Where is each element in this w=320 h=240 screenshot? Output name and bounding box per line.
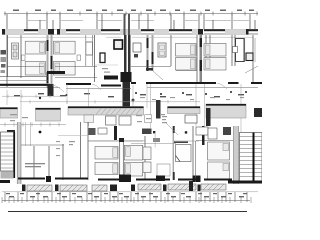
bed C1: [95, 147, 118, 160]
bottom dimension labels: [6, 193, 247, 197]
ground line: [8, 211, 247, 213]
wall band masonry blocks (gray): [5, 30, 246, 35]
door arc corridor mid: [92, 84, 101, 90]
planter left: [0, 108, 18, 119]
text near shaft: [102, 68, 110, 73]
wall band piers (black): [2, 29, 249, 35]
bottom dimension line: [2, 200, 250, 202]
party wall shaft mid-right: [147, 35, 154, 71]
bed A3: [25, 62, 45, 76]
duct block right: [146, 68, 153, 71]
lower wall corner blocks: [0, 176, 262, 184]
pier far right: [254, 108, 262, 117]
shower lower right: [176, 145, 192, 162]
bed C2: [124, 145, 142, 160]
text marks mid: [162, 116, 167, 123]
secondary dim segments top: [28, 20, 249, 22]
duct box black-framed: [114, 40, 123, 49]
corridor dim line mid: [20, 100, 200, 104]
dot marker: [39, 131, 42, 134]
nightstand right: [77, 55, 81, 61]
party wall shaft right: [200, 35, 203, 84]
fixtures far left: [1, 50, 7, 73]
room line mid lower: [131, 143, 176, 145]
bed C3: [95, 163, 118, 175]
wall band sill lines: [24, 33, 258, 35]
dresser above beds D: [208, 128, 217, 139]
party wall lower mid: [119, 138, 131, 182]
party wall shaft left: [47, 35, 53, 88]
door arc corridor right: [217, 83, 227, 89]
corridor vertical lines: [7, 84, 241, 132]
bed C4: [124, 163, 142, 177]
lower shaft piers: [114, 126, 205, 180]
sofa mid: [143, 147, 151, 160]
door swing: [153, 71, 163, 80]
duct bar left of shaft: [104, 76, 118, 80]
corridor wall main: [0, 83, 262, 86]
wardrobe left: [12, 43, 19, 59]
dark dot kitchen: [185, 131, 187, 133]
furniture top row lower zone: [89, 127, 232, 142]
planter mid-left: [36, 108, 61, 121]
bed B1: [176, 44, 197, 57]
balcony slab long: [68, 107, 144, 126]
nightstand left: [22, 55, 26, 61]
dresser lower: [157, 164, 170, 176]
wall band lintels over windows (black): [24, 29, 258, 35]
side table lower: [143, 162, 151, 173]
parapet piers: [22, 181, 201, 191]
bed B4: [204, 58, 226, 71]
shaft between bedrooms 2: [86, 35, 93, 66]
door arc corridor left: [52, 85, 64, 92]
bathroom right unit: [233, 38, 256, 62]
wall bar above corridor: [47, 71, 65, 74]
extra short ticks: [2, 197, 251, 203]
room top line lower mid: [88, 140, 145, 142]
room divider lines upper: [0, 67, 197, 78]
small fixture mid: [145, 115, 152, 123]
door swing right: [245, 66, 258, 73]
bed D1: [208, 142, 230, 160]
bed A1: [25, 41, 45, 54]
bed B2: [204, 44, 226, 57]
black chunk bottom mid: [156, 176, 165, 182]
lower exterior wall segments: [18, 179, 232, 180]
bed D2: [208, 162, 230, 180]
annotation text lower left: [25, 163, 45, 167]
central shaft: [121, 14, 132, 108]
shaft bar mid: [156, 100, 161, 119]
bed B3: [176, 58, 197, 71]
interior walls lower zone: [34, 122, 193, 180]
black chunk lower right: [193, 176, 201, 183]
stair right: [240, 133, 263, 183]
interior walls upper zone: [7, 35, 253, 87]
shaft below corridor left: [48, 84, 54, 96]
bottom parapet hatched segments: [27, 184, 226, 191]
shelf line lower left: [58, 135, 88, 137]
corridor clutter: [14, 93, 244, 97]
exterior wall band top: [2, 30, 258, 35]
balcony slab mid-right: [168, 107, 201, 114]
corridor dim line left: [2, 95, 62, 99]
riser pair crossing corridor: [150, 84, 152, 128]
lower zone horizontal lines: [21, 141, 233, 146]
small cabinet row mid: [133, 43, 141, 58]
door swing lower mid: [166, 123, 178, 135]
hatch band underline: [2, 191, 258, 193]
table upper right lower zone: [185, 115, 197, 123]
room line right lower: [174, 140, 199, 142]
wardrobe mid-right unit: [158, 43, 166, 57]
dimension line top: [4, 13, 258, 15]
dimension labels top: [13, 10, 254, 12]
dimension ticks top: [5, 12, 257, 16]
bottom dimension ticks: [5, 192, 247, 202]
corridor wall secondary lines: [0, 81, 258, 89]
wardrobe mid-left unit: [100, 53, 105, 63]
divider line lower mid: [154, 132, 156, 148]
stair wall strip left: [17, 122, 21, 184]
bed A2: [53, 41, 75, 54]
dimension row mid-left: [0, 123, 66, 127]
corridor verticals left lower: [26, 122, 31, 146]
inner wall face line: [7, 36, 253, 38]
pier mid right: [206, 108, 211, 126]
stair wall strip right: [234, 126, 239, 184]
hatch strokes: [29, 184, 224, 191]
wall risers above band: [7, 14, 255, 29]
bed A4: [53, 62, 75, 76]
text specks lower zone top: [10, 114, 165, 156]
stair left: [1, 130, 16, 179]
wall pair lower right: [195, 141, 197, 182]
balcony slab right: [206, 104, 246, 118]
